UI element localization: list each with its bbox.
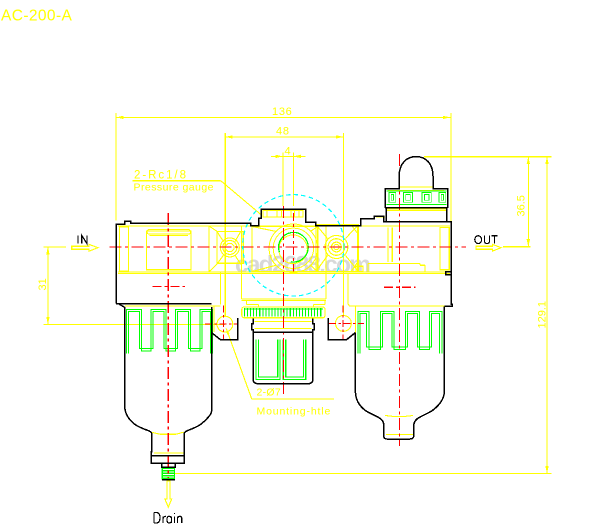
svg-text:31: 31 [37,278,49,290]
svg-text:cad2688.com: cad2688.com [235,252,370,279]
svg-text:48: 48 [276,126,290,138]
svg-text:Pressure gauge: Pressure gauge [134,182,214,194]
svg-text:Mounting-htle: Mounting-htle [257,405,332,417]
svg-text:129.1: 129.1 [537,301,549,329]
svg-text:2-Rc1/8: 2-Rc1/8 [134,170,188,182]
svg-text:136: 136 [272,106,292,118]
svg-text:AC-200-A: AC-200-A [1,8,73,25]
svg-text:2-Ø7: 2-Ø7 [257,386,282,398]
svg-text:36.5: 36.5 [516,195,528,216]
svg-text:4: 4 [285,145,291,157]
